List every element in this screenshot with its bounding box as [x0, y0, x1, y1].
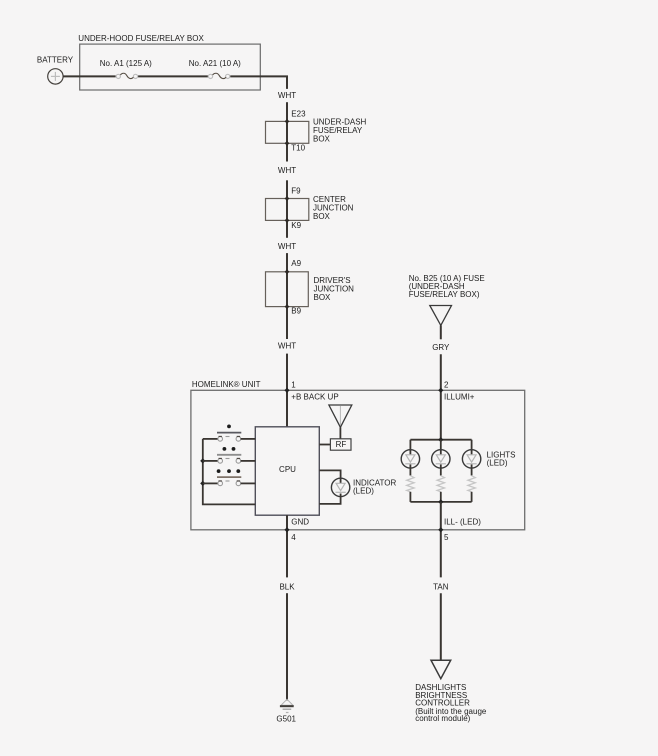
- CPU box: [255, 427, 319, 515]
- LED D2: [401, 450, 419, 468]
- resistor R1: [407, 476, 414, 492]
- svg-text:control module): control module): [415, 714, 470, 723]
- indicator LED D1: [331, 478, 349, 496]
- switch S1: [203, 436, 256, 441]
- junction dot B9: [285, 304, 290, 309]
- connector triangle dashlights: [431, 660, 451, 679]
- wire LED D2 to resistor: [409, 465, 411, 476]
- under-dash fuse/relay box: [266, 121, 309, 143]
- homelink unit box: [191, 390, 525, 530]
- switch S2: [203, 458, 256, 463]
- svg-text:WHT: WHT: [278, 342, 296, 351]
- junction dot F9: [285, 196, 290, 201]
- wire TAN to dashlights controller: [440, 593, 442, 660]
- svg-text:BLK: BLK: [279, 582, 295, 591]
- svg-text:BOX: BOX: [313, 135, 331, 144]
- LED branch left wire: [409, 440, 411, 455]
- wire BLK to ground: [286, 593, 288, 700]
- driver's junction box: [266, 272, 309, 307]
- LED top bus: [410, 439, 471, 441]
- LED branch middle wire: [440, 440, 442, 455]
- wire resistor to bottom bus: [409, 492, 411, 502]
- svg-text:ILL- (LED): ILL- (LED): [444, 517, 481, 526]
- svg-text:WHT: WHT: [278, 166, 296, 175]
- under-hood fuse/relay box: [80, 44, 261, 90]
- antenna: [329, 405, 352, 427]
- wire LED bus to pin 5: [440, 502, 442, 578]
- LED D4: [462, 450, 480, 468]
- svg-text:(LED): (LED): [487, 459, 508, 468]
- LED branch right wire: [471, 440, 473, 455]
- junction dot pin 2: [438, 388, 443, 393]
- junction dot LED top: [438, 437, 443, 442]
- wire CPU to indicator LED: [319, 470, 340, 483]
- wire fuse A21 to corner, down: [230, 76, 287, 89]
- svg-text:BOX: BOX: [314, 293, 332, 302]
- junction dot K9: [285, 218, 290, 223]
- junction dot E23: [285, 119, 290, 124]
- battery symbol: [48, 69, 63, 84]
- wire GRY to homelink pin 2: [440, 354, 442, 439]
- svg-text:2: 2: [444, 380, 449, 389]
- junction dot pin 4: [284, 527, 289, 532]
- resistor R2: [437, 476, 444, 492]
- svg-text:GND: GND: [291, 517, 309, 526]
- button 3 dots: [217, 469, 241, 473]
- svg-text:T10: T10: [291, 144, 305, 153]
- fuse A21: [208, 73, 229, 78]
- wire antenna to RF: [339, 427, 341, 439]
- svg-text:+B BACK UP: +B BACK UP: [291, 392, 338, 401]
- button 2 dots: [223, 447, 236, 451]
- junction dot bus row3: [200, 481, 205, 486]
- svg-text:WHT: WHT: [278, 91, 296, 100]
- svg-text:K9: K9: [291, 221, 301, 230]
- svg-text:E23: E23: [291, 110, 306, 119]
- wire resistor to bottom bus: [440, 492, 442, 502]
- junction dot pin 1: [284, 388, 289, 393]
- wire indicator LED back to CPU: [319, 494, 340, 504]
- svg-text:HOMELINK® UNIT: HOMELINK® UNIT: [192, 380, 261, 389]
- LED D3: [432, 450, 450, 468]
- svg-text:BATTERY: BATTERY: [37, 55, 74, 64]
- junction dot bus row2: [200, 458, 205, 463]
- wire fuse A1 to fuse A21: [138, 75, 208, 77]
- junction dot LED bottom: [438, 499, 443, 504]
- wire WHT to driver's junction box: [286, 253, 288, 339]
- wire LED D3 to resistor: [440, 465, 442, 476]
- svg-text:No. A1 (125 A): No. A1 (125 A): [100, 59, 152, 68]
- svg-text:G501: G501: [276, 715, 296, 724]
- svg-text:(LED): (LED): [353, 487, 374, 496]
- RF box: [330, 439, 351, 450]
- center junction box: [266, 199, 309, 221]
- button 2 cap: [217, 454, 241, 456]
- svg-text:B9: B9: [291, 306, 301, 315]
- fuse A1: [116, 73, 137, 78]
- wire CPU to RF: [319, 444, 330, 446]
- svg-text:RF: RF: [336, 440, 347, 449]
- wire CPU to pin 4: [286, 515, 288, 577]
- resistor R3: [468, 476, 475, 492]
- junction dot pin 5: [438, 527, 443, 532]
- wire battery to fuse A1: [63, 75, 116, 77]
- svg-text:A9: A9: [291, 259, 301, 268]
- svg-text:BOX: BOX: [313, 212, 331, 221]
- switch S3: [203, 481, 256, 486]
- wire LED D4 to resistor: [471, 465, 473, 476]
- wire WHT to homelink pin 1: [286, 354, 288, 427]
- svg-text:5: 5: [444, 533, 449, 542]
- button 3 cap: [217, 476, 241, 478]
- wire resistor to bottom bus: [471, 492, 473, 502]
- wire B25 down: [440, 325, 442, 339]
- svg-text:GRY: GRY: [432, 343, 450, 352]
- button 1 cap: [217, 432, 241, 434]
- connector triangle B25: [430, 306, 452, 326]
- svg-text:4: 4: [291, 533, 296, 542]
- junction dot A9: [285, 269, 290, 274]
- svg-text:CPU: CPU: [279, 465, 296, 474]
- junction dot T10: [285, 141, 290, 146]
- svg-text:TAN: TAN: [433, 582, 449, 591]
- svg-text:No. A21 (10 A): No. A21 (10 A): [189, 59, 241, 68]
- LED bottom bus: [410, 501, 471, 503]
- svg-text:F9: F9: [291, 187, 301, 196]
- svg-text:UNDER-HOOD FUSE/RELAY BOX: UNDER-HOOD FUSE/RELAY BOX: [78, 34, 204, 43]
- ground G501: [280, 699, 294, 712]
- svg-text:1: 1: [291, 380, 296, 389]
- svg-text:WHT: WHT: [278, 242, 296, 251]
- switch bus wire: [203, 439, 256, 505]
- svg-text:FUSE/RELAY BOX): FUSE/RELAY BOX): [409, 290, 480, 299]
- button 1 dot: [227, 425, 231, 429]
- svg-text:ILLUMI+: ILLUMI+: [444, 392, 475, 401]
- wire WHT to under-dash box: [286, 102, 288, 161]
- wire WHT to center junction box: [286, 180, 288, 238]
